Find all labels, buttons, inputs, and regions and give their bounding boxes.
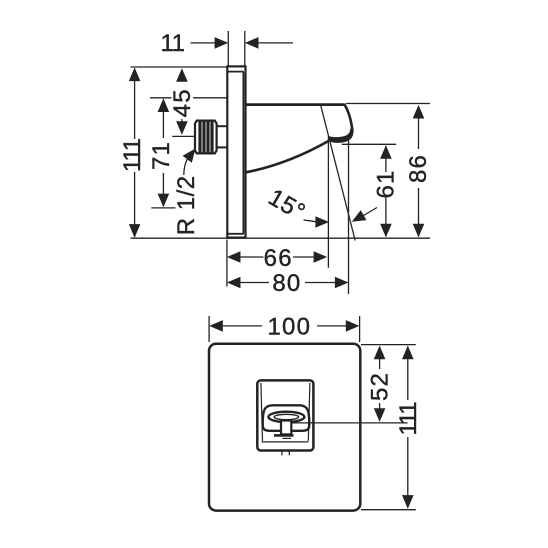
spout top edge (245, 103, 345, 106)
extension line front view bottom right (361, 509, 416, 511)
dimension 86 line upper segment (418, 107, 420, 150)
svg-text:86: 86 (405, 154, 432, 183)
dimension 45 top arrow (176, 68, 188, 82)
dimension 111 (front) line upper segment (407, 347, 409, 401)
extension tick 45 bottom (connector axis) (172, 135, 194, 137)
vertical reference line from spout front (x=348.5) (348, 140, 350, 295)
wall plate inner bottom line (228, 233, 244, 235)
connector knurl line 3 (206, 122, 209, 153)
dimension 111 line lower segment (134, 172, 136, 237)
dimension 52 bottom arrow (374, 408, 386, 422)
dimension 111 (front) bottom arrow (402, 495, 414, 509)
wall plate inner top line (228, 71, 244, 73)
dimension 66 right arrow (314, 251, 328, 263)
module inner slant left (261, 383, 263, 441)
dimension 52 line upper segment (379, 347, 381, 370)
svg-text:71: 71 (148, 141, 175, 170)
dimension 52 line lower segment (379, 403, 381, 420)
svg-text:R 1/2: R 1/2 (173, 175, 200, 235)
dimension 71 line lower segment (162, 173, 164, 206)
connector knurl line 1 (198, 122, 201, 153)
dimension 61 top arrow (380, 145, 392, 159)
spout outlet lip (filled) (329, 128, 354, 143)
15 degrees leader tail right (361, 208, 377, 218)
svg-text:111: 111 (119, 138, 146, 172)
dimension 80 line left segment (239, 282, 269, 284)
dimension 100 line right segment (317, 325, 348, 327)
wall plate outer outline (side view) (227, 66, 245, 237)
extension line 71 top (y=97.8) (150, 97, 228, 99)
svg-text:100: 100 (267, 313, 311, 340)
connector neck top line (217, 125, 227, 127)
svg-text:15°: 15° (264, 184, 310, 226)
dimension 71 top arrow (158, 98, 170, 112)
notch tick left in frame bottom (281, 452, 283, 456)
dimension 11 right arrow (245, 37, 259, 49)
dimension 86 line lower segment (418, 188, 420, 237)
connector neck bottom line (217, 146, 227, 148)
extension line bottom reference y=238 (131, 237, 431, 239)
module inner bottom line (262, 441, 309, 443)
threaded connector body (195, 121, 217, 154)
svg-text:66: 66 (264, 245, 293, 272)
dimension 61 line upper segment (385, 146, 387, 172)
dimension 11 right tail wire (258, 42, 294, 44)
dimension 100 line left segment (222, 325, 263, 327)
spout module frame (front view) (257, 380, 313, 450)
extension line plate top (111 top) (131, 66, 228, 68)
dimension 66 line left segment (239, 256, 264, 258)
extension line front view top right (361, 344, 416, 346)
svg-text:11: 11 (161, 30, 185, 57)
dimension 45 line lower segment (181, 119, 183, 134)
label R 1/2 arrow (183, 149, 196, 163)
dimension 71 bottom arrow (158, 194, 170, 208)
extension line 61 top (outlet level) (342, 143, 396, 145)
svg-text:61: 61 (373, 169, 400, 198)
15 degrees arrow left (315, 216, 329, 228)
15 degrees arrow right (352, 210, 367, 222)
bar under tab (274, 434, 294, 437)
dimension 71 line upper segment (162, 100, 164, 139)
dimension 11 left arrow (215, 37, 229, 49)
dimension 86 bottom arrow (413, 224, 425, 238)
dimension 80 left arrow (227, 277, 241, 289)
spout bottom curve (245, 141, 329, 173)
outlet inner ellipse (274, 414, 298, 419)
dimension 80 right arrow (335, 277, 349, 289)
dimension 61 line lower segment (385, 196, 387, 237)
escutcheon square (front view) (209, 344, 360, 511)
connector knurl line 4 (210, 122, 213, 153)
dimension 100 left arrow (209, 320, 223, 332)
dimension 111 (front) top arrow (402, 346, 414, 360)
dimension 111 bottom arrow (129, 224, 141, 238)
centerline from outlet to 52 dimension (292, 422, 408, 424)
dimension 52 top arrow (374, 346, 386, 360)
label R 1/2 leader curve (184, 156, 190, 175)
15 degree slanted reference line (321, 105, 356, 241)
dimension 61 bottom arrow (380, 224, 392, 238)
dimension 66 left arrow (227, 251, 241, 263)
dimension 80 line right segment (305, 282, 337, 284)
extension line left of 11 (227, 31, 229, 66)
wall plate inner face line (242, 72, 244, 234)
dimension 111 line upper segment (134, 69, 136, 140)
dimension 111 top arrow (129, 68, 141, 82)
dimension 100 extension line right (359, 316, 361, 342)
dimension 86 top arrow (413, 105, 425, 119)
notch tick right in frame bottom (288, 452, 290, 456)
svg-text:45: 45 (169, 88, 196, 117)
dimension 66 line right segment (293, 256, 316, 258)
15 degrees leader tail left (304, 220, 318, 222)
spout front face (344, 104, 353, 130)
outlet outer ellipse (268, 412, 304, 422)
dimension 100 right arrow (346, 320, 360, 332)
dimension 11 left tail wire (191, 42, 217, 44)
module inner slant right (308, 383, 310, 441)
spout arch outline (front view) (263, 405, 310, 431)
extension line 86 top (spout top level) (346, 103, 430, 105)
dimension 111 (front) line lower segment (407, 437, 409, 508)
connector knurl line 2 (202, 122, 205, 153)
svg-text:111: 111 (395, 402, 422, 436)
small line under tab (283, 437, 292, 439)
extension line right of 11 (244, 31, 246, 66)
dimension 45 bottom arrow (176, 121, 188, 135)
aerator tab (281, 421, 291, 435)
svg-text:52: 52 (367, 372, 394, 401)
dimension 100 extension line left (208, 316, 210, 342)
vertical reference line from outlet (x=328.4) (327, 136, 329, 268)
extension line plate left lower (for 66/80) (226, 240, 228, 287)
svg-text:80: 80 (272, 270, 301, 297)
extension tick 71 bottom (151, 207, 175, 209)
